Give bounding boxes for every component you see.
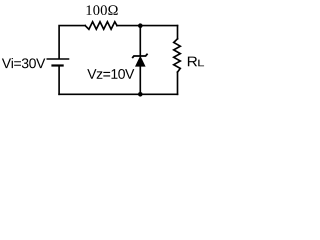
- wire bottom segment: [59, 93, 177, 95]
- resistor R1 100ohm zigzag: [85, 22, 117, 30]
- zener diode D1 triangle (anode, pointing up): [136, 56, 146, 66]
- label 100ohm: [87, 5, 118, 15]
- junction node top (zener tap): [138, 23, 143, 28]
- battery source Vi long plate (+): [47, 58, 70, 60]
- resistor RL zigzag: [174, 39, 181, 72]
- wire top-middle segment: [117, 25, 178, 27]
- wire right branch lower: [177, 72, 179, 94]
- wire right branch upper: [177, 26, 179, 39]
- wire zener branch upper: [139, 26, 141, 56]
- label RL (L subscript): [198, 60, 204, 67]
- label Vz=10V: [87, 69, 134, 79]
- label RL (R): [188, 57, 197, 67]
- battery source Vi short plate (-): [51, 64, 63, 66]
- label Vi=30V: [2, 58, 45, 68]
- wire top-left segment: [59, 26, 85, 59]
- wire left branch lower: [58, 66, 60, 94]
- wire zener branch lower: [139, 66, 141, 94]
- zener diode D1 cathode bar with bent ends: [132, 54, 147, 58]
- junction node bottom (zener return): [138, 92, 143, 97]
